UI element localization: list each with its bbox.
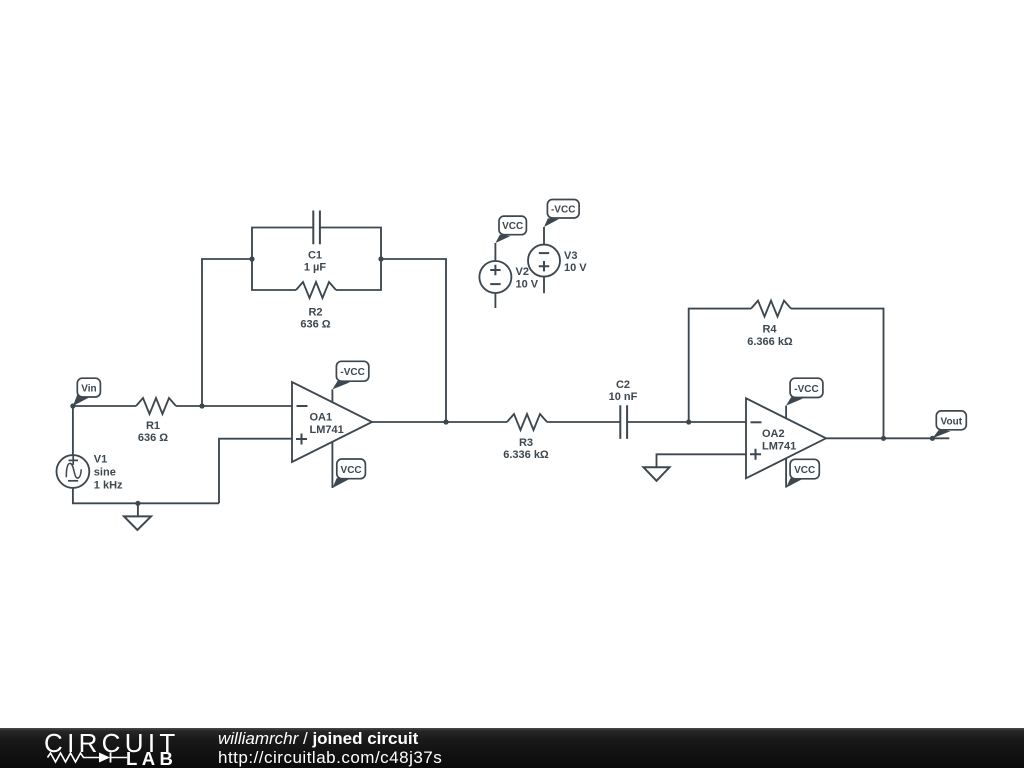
wire R4 left vertical xyxy=(689,309,751,422)
svg-text:1 kHz: 1 kHz xyxy=(94,479,123,491)
svg-text:Vin: Vin xyxy=(81,384,96,395)
svg-text:10 nF: 10 nF xyxy=(609,391,638,403)
capacitor C1 xyxy=(313,211,320,245)
R2 labels xyxy=(300,306,330,330)
svg-text:LAB: LAB xyxy=(126,748,177,768)
svg-text:OA1: OA1 xyxy=(310,412,333,424)
wire R1 to OA1 inverting input xyxy=(176,405,292,407)
svg-text:C2: C2 xyxy=(616,379,630,391)
svg-text:VCC: VCC xyxy=(341,465,362,476)
R1 labels xyxy=(138,420,168,444)
node junction output/feedback xyxy=(443,419,448,424)
logo CIRCUIT wordmark xyxy=(44,728,180,769)
node Vin anchor xyxy=(70,403,75,408)
node junction feedback left xyxy=(249,256,254,261)
resistor R2 xyxy=(296,282,336,298)
OA1 VCC pin stub xyxy=(331,442,333,488)
svg-text:V2: V2 xyxy=(516,266,529,278)
node junction feedback right xyxy=(378,256,383,261)
V2 labels xyxy=(516,266,539,290)
C2 labels xyxy=(609,379,638,403)
svg-text:LM741: LM741 xyxy=(310,424,344,436)
svg-text:R3: R3 xyxy=(519,437,533,449)
svg-text:-VCC: -VCC xyxy=(794,384,818,395)
svg-text:VCC: VCC xyxy=(502,221,523,232)
wire R4 right vertical xyxy=(791,309,884,439)
resistor R3 xyxy=(507,414,547,430)
op-amp OA1 xyxy=(292,382,372,462)
svg-text:636 Ω: 636 Ω xyxy=(138,432,168,444)
svg-text:1 µF: 1 µF xyxy=(304,262,327,274)
wire to C1 xyxy=(252,228,313,260)
wire R3 to C2 xyxy=(547,421,620,423)
svg-text:6.366 kΩ: 6.366 kΩ xyxy=(747,336,793,348)
ground at OA2 + input xyxy=(644,467,670,481)
wire Vin down to V1 xyxy=(72,406,74,455)
node junction R4 left xyxy=(686,419,691,424)
OA1 labels xyxy=(310,412,344,437)
node junction R1/feedback xyxy=(199,403,204,408)
flag VCC (OA1) xyxy=(332,459,365,488)
logo diode xyxy=(99,753,110,763)
ground under V1 xyxy=(124,503,151,530)
svg-text:V1: V1 xyxy=(94,453,107,465)
svg-text:R1: R1 xyxy=(146,420,160,432)
logo resistor zigzag xyxy=(48,753,128,763)
capacitor C2 xyxy=(620,405,627,439)
OA2 VCC pin stub xyxy=(785,458,787,487)
node junction ground xyxy=(135,501,140,506)
wire R2 right xyxy=(336,259,381,290)
V1 labels xyxy=(94,453,123,491)
flag Vout xyxy=(932,411,966,438)
node Vout anchor xyxy=(930,436,935,441)
svg-text:-VCC: -VCC xyxy=(551,205,575,216)
svg-text:V3: V3 xyxy=(564,250,577,262)
R4 labels xyxy=(747,324,793,348)
svg-text:636 Ω: 636 Ω xyxy=(300,318,330,330)
R3 labels xyxy=(503,437,549,461)
svg-text:VCC: VCC xyxy=(794,465,815,476)
wire OA2 output xyxy=(826,437,949,439)
svg-text:LM741: LM741 xyxy=(762,440,796,452)
wire OA2 + input to ground xyxy=(657,454,747,467)
node junction output/R4 xyxy=(881,436,886,441)
wire feedback vertical xyxy=(202,259,252,406)
svg-text:R4: R4 xyxy=(762,324,777,336)
flag VCC (V2) xyxy=(495,216,526,243)
wire OA1 output xyxy=(372,421,507,423)
svg-text:sine: sine xyxy=(94,466,116,478)
wire C1 right xyxy=(320,228,381,260)
flag -VCC (V3) xyxy=(544,200,579,228)
V3 labels xyxy=(564,250,587,274)
resistor R4 xyxy=(751,301,791,317)
wire V1 bottom xyxy=(73,488,219,503)
wire Vin to R1 xyxy=(73,405,136,407)
resistor R1 xyxy=(136,398,176,414)
svg-text:10 V: 10 V xyxy=(516,278,539,290)
wire C2 to OA2 inverting input xyxy=(627,421,746,423)
svg-text:6.336 kΩ: 6.336 kΩ xyxy=(503,449,549,461)
wire feedback to output xyxy=(381,259,446,422)
C1 labels xyxy=(304,250,327,274)
voltage source V3 xyxy=(528,227,560,293)
wire to R2 xyxy=(252,259,296,290)
OA1 -VCC pin stub xyxy=(331,389,333,402)
voltage source V1 (sine) xyxy=(57,455,90,488)
wire to OA1 non-inverting input xyxy=(219,439,292,504)
svg-text:OA2: OA2 xyxy=(762,428,785,440)
flag VCC (OA2) xyxy=(786,459,819,487)
svg-text:C1: C1 xyxy=(308,250,322,262)
OA2 -VCC pin stub xyxy=(785,406,787,419)
svg-text:-VCC: -VCC xyxy=(340,367,364,378)
voltage source V2 xyxy=(479,243,511,308)
flag -VCC (OA2) xyxy=(786,378,823,405)
svg-text:Vout: Vout xyxy=(941,416,963,427)
flag -VCC (OA1) xyxy=(332,361,368,389)
op-amp OA2 xyxy=(746,398,826,478)
svg-text:10 V: 10 V xyxy=(564,262,587,274)
OA2 labels xyxy=(762,428,796,453)
flag Vin xyxy=(73,378,101,406)
svg-text:R2: R2 xyxy=(308,306,322,318)
